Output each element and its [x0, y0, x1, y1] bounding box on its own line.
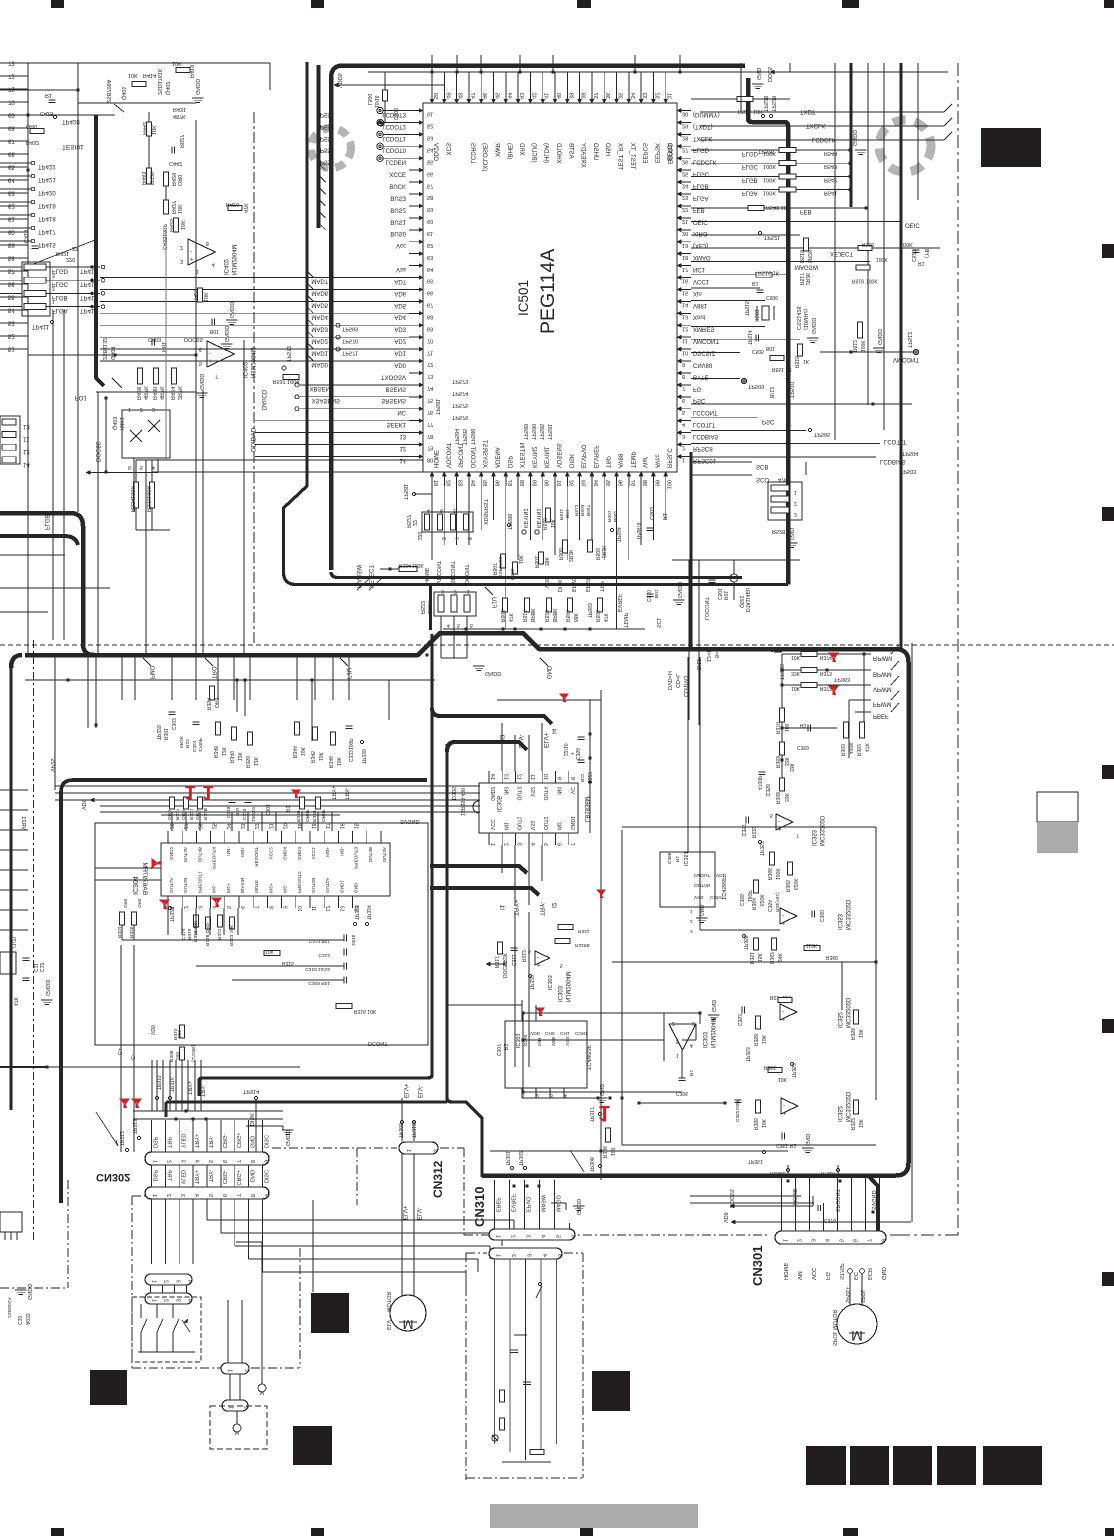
svg-text:3: 3 — [516, 843, 522, 846]
svg-text:94: 94 — [592, 480, 598, 486]
svg-text:XEJECT: XEJECT — [367, 565, 373, 588]
svg-text:4: 4 — [193, 1194, 199, 1197]
svg-text:4700P: 4700P — [756, 775, 762, 790]
svg-text:VS1: VS1 — [529, 820, 535, 830]
svg-text:C301: C301 — [264, 804, 270, 816]
svg-text:GND3: GND3 — [297, 847, 302, 860]
svg-text:(BHE): (BHE) — [506, 143, 512, 159]
svg-text:19: 19 — [682, 242, 688, 248]
svg-text:EC: EC — [852, 1272, 858, 1280]
svg-text:R306: R306 — [601, 1146, 607, 1158]
svg-text:C309 R01: C309 R01 — [308, 980, 330, 986]
svg-text:(YB): (YB) — [923, 247, 929, 258]
svg-text:43: 43 — [518, 93, 524, 99]
svg-text:TRY-: TRY- — [207, 1170, 213, 1182]
svg-text:GND: GND — [788, 528, 794, 540]
svg-text:TP308: TP308 — [588, 1157, 594, 1172]
svg-text:1: 1 — [495, 1235, 501, 1238]
svg-text:VCC1: VCC1 — [693, 278, 710, 284]
svg-text:XDSPRST: XDSPRST — [482, 498, 488, 525]
svg-text:M: M — [403, 1317, 414, 1332]
svg-text:53: 53 — [427, 135, 433, 141]
svg-text:47K: 47K — [778, 476, 788, 482]
svg-text:IC352: IC352 — [836, 1011, 842, 1028]
svg-text:TP329: TP329 — [155, 725, 161, 740]
svg-text:+: + — [783, 1109, 787, 1115]
svg-text:R512: R512 — [573, 504, 579, 516]
svg-text:12K: 12K — [236, 751, 242, 761]
svg-text:70: 70 — [8, 99, 15, 105]
svg-text:Q402: Q402 — [164, 82, 170, 95]
svg-text:C358: C358 — [764, 784, 770, 796]
svg-text:R304: R304 — [399, 562, 411, 568]
svg-text:9: 9 — [263, 1160, 269, 1163]
svg-text:13: 13 — [23, 423, 30, 429]
svg-text:GND4: GND4 — [283, 847, 288, 860]
svg-text:VCC2: VCC2 — [268, 847, 273, 860]
svg-text:R1: R1 — [661, 513, 667, 520]
svg-text:13: 13 — [502, 774, 508, 780]
svg-text:TP589: TP589 — [522, 424, 528, 440]
svg-text:17: 17 — [324, 823, 330, 829]
svg-text:VPWM: VPWM — [873, 686, 892, 692]
svg-text:6: 6 — [199, 346, 202, 352]
svg-text:IN3-: IN3- — [339, 847, 344, 856]
svg-text:47K: 47K — [863, 742, 869, 752]
svg-text:RFSLC: RFSLC — [666, 448, 672, 468]
svg-text:GND: GND — [249, 1136, 255, 1148]
svg-text:65: 65 — [8, 164, 15, 170]
svg-text:(10MHz): (10MHz) — [802, 309, 808, 330]
svg-text:37: 37 — [592, 93, 598, 99]
svg-text:R345: R345 — [309, 751, 315, 763]
svg-text:57: 57 — [427, 182, 433, 188]
svg-text:TP416: TP416 — [80, 268, 98, 274]
svg-text:R318 OR0: R318 OR0 — [204, 923, 210, 946]
svg-text:2: 2 — [52, 285, 55, 291]
svg-text:IC501: IC501 — [516, 280, 531, 316]
svg-text:IC351: IC351 — [682, 851, 688, 866]
svg-text:100K: 100K — [866, 278, 878, 284]
svg-text:15K: 15K — [756, 952, 762, 962]
svg-text:6: 6 — [528, 948, 531, 954]
svg-text:ADENA: ADENA — [494, 447, 500, 468]
svg-text:2: 2 — [510, 1235, 516, 1238]
svg-text:R540 10K: R540 10K — [766, 204, 791, 210]
svg-text:TP586: TP586 — [469, 429, 475, 445]
svg-text:1: 1 — [598, 1101, 610, 1126]
svg-text:LCDOT1: LCDOT1 — [382, 135, 406, 141]
svg-text:MAD6: MAD6 — [311, 290, 328, 296]
svg-text:R551: R551 — [772, 366, 784, 372]
svg-text:2: 2 — [244, 1369, 250, 1372]
svg-text:R315: R315 — [282, 960, 294, 966]
svg-text:R503: R503 — [579, 504, 585, 516]
svg-text:I3: I3 — [498, 734, 505, 740]
svg-text:GND2: GND2 — [489, 787, 495, 801]
svg-text:12: 12 — [23, 448, 30, 454]
svg-text:56: 56 — [427, 170, 433, 176]
svg-text:52: 52 — [427, 123, 433, 129]
svg-text:NC1: NC1 — [693, 266, 706, 272]
svg-text:100K: 100K — [412, 562, 424, 568]
svg-text:TP552: TP552 — [316, 123, 334, 129]
svg-text:AD7: AD7 — [394, 278, 406, 284]
svg-text:4: 4 — [427, 507, 430, 513]
svg-text:BUCK: BUCK — [389, 182, 406, 188]
svg-text:MAD1: MAD1 — [311, 349, 328, 355]
svg-text:R22: R22 — [184, 739, 190, 748]
svg-text:7: 7 — [682, 385, 685, 391]
svg-text:IC353: IC353 — [836, 913, 842, 930]
svg-text:1: 1 — [52, 298, 55, 304]
svg-text:620K: 620K — [792, 878, 798, 890]
svg-text:R521: R521 — [738, 108, 751, 114]
svg-text:I1: I1 — [498, 904, 505, 910]
svg-text:DISC: DISC — [263, 1170, 269, 1183]
svg-text:4: 4 — [682, 421, 685, 427]
svg-text:68: 68 — [427, 314, 433, 320]
svg-text:10K: 10K — [176, 204, 182, 214]
svg-text:3: 3 — [175, 1280, 181, 1283]
svg-text:C419: C419 — [22, 230, 28, 243]
svg-text:39: 39 — [567, 93, 573, 99]
svg-text:1: 1 — [184, 781, 196, 804]
svg-text:C311: C311 — [510, 954, 516, 966]
svg-text:B01: B01 — [564, 509, 570, 518]
svg-text:4: 4 — [447, 622, 450, 628]
svg-text:IC303: IC303 — [556, 985, 562, 1002]
svg-text:33: 33 — [641, 93, 647, 99]
svg-text:CRG+: CRG+ — [235, 1170, 241, 1185]
svg-text:CSS1428: CSS1428 — [795, 306, 801, 330]
svg-text:72: 72 — [8, 73, 15, 79]
svg-text:R368: R368 — [774, 792, 780, 804]
svg-text:96: 96 — [617, 480, 623, 486]
svg-text:BUS1: BUS1 — [390, 218, 406, 224]
svg-text:R369: R369 — [774, 756, 780, 768]
svg-text:R443: R443 — [140, 172, 146, 185]
svg-text:TC4W53F: TC4W53F — [585, 1044, 591, 1070]
svg-text:R1: R1 — [45, 92, 52, 98]
svg-text:51: 51 — [427, 111, 433, 117]
svg-text:Q401: Q401 — [120, 87, 126, 100]
svg-text:9: 9 — [263, 1194, 269, 1197]
svg-text:10K: 10K — [753, 108, 763, 114]
svg-text:IC353: IC353 — [810, 829, 816, 846]
svg-text:FLGC: FLGC — [742, 163, 759, 169]
svg-text:68: 68 — [8, 125, 15, 131]
svg-text:MC33202D: MC33202D — [844, 899, 850, 930]
svg-text:10K: 10K — [791, 654, 801, 660]
svg-text:R365: R365 — [784, 880, 790, 892]
svg-text:54: 54 — [8, 307, 15, 313]
svg-text:31: 31 — [666, 93, 672, 99]
svg-text:22: 22 — [786, 366, 792, 372]
svg-text:R430: R430 — [151, 387, 157, 400]
svg-text:R510: R510 — [541, 518, 547, 530]
svg-text:1: 1 — [151, 1299, 157, 1302]
svg-text:10K: 10K — [791, 685, 801, 691]
svg-text:45: 45 — [494, 93, 500, 99]
svg-text:VDD: VDD — [530, 1030, 541, 1036]
svg-text:13: 13 — [399, 433, 406, 439]
svg-text:ECR: ECR — [866, 1268, 872, 1280]
svg-text:TP330: TP330 — [360, 749, 366, 764]
svg-text:8: 8 — [569, 777, 575, 780]
svg-text:TEMP: TEMP — [622, 612, 628, 628]
svg-text:5R2K: 5R2K — [148, 171, 154, 185]
svg-text:TP572: TP572 — [285, 346, 291, 362]
svg-text:14: 14 — [23, 461, 30, 467]
svg-text:38: 38 — [580, 93, 586, 99]
svg-text:PREOUT1: PREOUT1 — [197, 871, 202, 893]
svg-text:LB1836M: LB1836M — [583, 796, 589, 822]
svg-text:LCDEN: LCDEN — [386, 159, 406, 165]
svg-text:R1: R1 — [674, 856, 680, 862]
svg-text:100K: 100K — [774, 868, 780, 880]
svg-text:CN312: CN312 — [431, 1160, 445, 1198]
svg-text:2SB709A: 2SB709A — [105, 79, 111, 103]
svg-text:MAGSW: MAGSW — [355, 564, 361, 588]
svg-text:10K: 10K — [760, 1034, 766, 1044]
svg-text:R518: R518 — [852, 278, 864, 284]
svg-text:FLGB: FLGB — [43, 514, 49, 530]
svg-text:EEPCS: EEPCS — [641, 143, 647, 163]
svg-text:TP5879: TP5879 — [635, 522, 641, 540]
svg-text:TP585: TP585 — [461, 429, 467, 445]
svg-text:R501: R501 — [533, 556, 539, 568]
svg-text:52: 52 — [8, 333, 15, 339]
svg-text:25: 25 — [211, 823, 217, 829]
svg-text:R515: R515 — [793, 356, 799, 368]
svg-text:MAGSW: MAGSW — [795, 264, 819, 270]
svg-text:C354: C354 — [766, 900, 772, 912]
svg-text:4: 4 — [187, 1299, 193, 1302]
svg-text:8: 8 — [249, 1194, 255, 1197]
svg-text:60: 60 — [427, 218, 433, 224]
svg-text:49: 49 — [444, 93, 450, 99]
svg-text:1: 1 — [782, 1239, 788, 1242]
svg-text:3: 3 — [690, 928, 693, 934]
svg-text:10K: 10K — [317, 751, 323, 761]
svg-text:R324: R324 — [116, 926, 122, 938]
svg-text:HOME: HOME — [770, 1170, 787, 1176]
svg-text:76: 76 — [427, 409, 433, 415]
svg-text:2: 2 — [165, 1194, 171, 1197]
svg-text:AD2: AD2 — [394, 338, 406, 344]
svg-text:TP569: TP569 — [342, 325, 358, 331]
svg-text:14: 14 — [489, 774, 495, 780]
svg-text:GNDD: GNDD — [851, 130, 857, 146]
svg-text:TRY-: TRY- — [343, 788, 349, 800]
svg-text:CRG-: CRG- — [221, 1134, 227, 1148]
svg-text:29: 29 — [682, 123, 688, 129]
svg-text:7: 7 — [866, 1239, 872, 1242]
svg-text:TP301: TP301 — [504, 1151, 510, 1166]
svg-text:25: 25 — [682, 170, 688, 176]
svg-text:R360: R360 — [826, 954, 838, 960]
svg-text:TP581: TP581 — [402, 484, 408, 500]
svg-text:GND: GND — [804, 1134, 810, 1146]
svg-text:SRSENS: SRSENS — [381, 397, 406, 403]
svg-text:R507: R507 — [491, 563, 497, 575]
svg-text:TP503: TP503 — [900, 468, 916, 474]
svg-text:LCDCLK: LCDCLK — [693, 159, 717, 165]
svg-text:4: 4 — [152, 464, 155, 470]
svg-text:100: 100 — [666, 480, 672, 489]
svg-text:32: 32 — [653, 93, 659, 99]
svg-text:10: 10 — [296, 906, 302, 912]
svg-text:6: 6 — [221, 1160, 227, 1163]
svg-text:1: 1 — [690, 908, 693, 914]
svg-text:73: 73 — [427, 373, 433, 379]
svg-text:TXCLK: TXCLK — [806, 122, 825, 128]
svg-text:IC304: IC304 — [131, 876, 138, 895]
svg-text:R504: R504 — [564, 610, 570, 622]
svg-text:R308: R308 — [168, 1050, 174, 1062]
svg-text:MASW: MASW — [540, 1194, 546, 1212]
svg-text:85: 85 — [481, 480, 487, 486]
svg-text:ELV+: ELV+ — [542, 732, 549, 748]
svg-text:9: 9 — [282, 906, 288, 909]
svg-text:100/10: 100/10 — [250, 807, 256, 822]
svg-text:2: 2 — [182, 906, 188, 909]
svg-text:59: 59 — [427, 206, 433, 212]
svg-text:R428: R428 — [135, 387, 141, 400]
svg-text:TP313: TP313 — [131, 1119, 137, 1134]
svg-text:BSENS: BSENS — [386, 385, 406, 391]
svg-text:100K: 100K — [876, 256, 888, 262]
svg-text:TP422: TP422 — [38, 163, 56, 169]
svg-text:48?K: 48?K — [173, 113, 186, 119]
svg-text:TP510: TP510 — [788, 382, 794, 398]
svg-text:GND: GND — [880, 1267, 886, 1280]
svg-text:R340: R340 — [311, 810, 317, 822]
svg-text:SPCONT: SPCONT — [449, 560, 455, 584]
svg-text:XSASENS: XSASENS — [312, 397, 340, 403]
svg-text:LCDBIAS: LCDBIAS — [693, 433, 719, 439]
svg-text:SEEK1: SEEK1 — [387, 421, 407, 427]
svg-text:64: 64 — [8, 177, 15, 183]
svg-text:1: 1 — [467, 588, 470, 594]
svg-text:C355: C355 — [738, 894, 744, 906]
svg-text:AD5: AD5 — [394, 302, 406, 308]
svg-text:GNDD: GNDD — [26, 1284, 32, 1300]
svg-text:C360: C360 — [818, 910, 824, 922]
svg-text:TP310: TP310 — [410, 1123, 416, 1138]
svg-text:SVGND: SVGND — [400, 818, 420, 824]
svg-text:100K: 100K — [763, 190, 776, 196]
svg-text:C508: C508 — [392, 108, 398, 120]
svg-text:GNDD: GNDD — [676, 582, 682, 598]
svg-text:24: 24 — [225, 823, 231, 829]
svg-text:R512: R512 — [851, 340, 857, 352]
svg-text:MAD4: MAD4 — [311, 314, 328, 320]
svg-text:97: 97 — [629, 480, 635, 486]
svg-text:TP421: TP421 — [38, 176, 56, 182]
svg-text:TP590: TP590 — [530, 424, 536, 440]
svg-text:NJM2904M: NJM2904M — [230, 244, 236, 275]
svg-text:R337: R337 — [174, 808, 180, 820]
svg-text:INH: INH — [536, 1037, 542, 1046]
svg-text:1K: 1K — [803, 358, 810, 364]
svg-text:6: 6 — [682, 397, 685, 403]
svg-text:2R7K: 2R7K — [176, 386, 182, 400]
svg-text:60: 60 — [8, 229, 15, 235]
svg-text:TP365: TP365 — [778, 664, 784, 680]
svg-text:ELV-: ELV- — [517, 734, 524, 748]
svg-text:DISC: DISC — [263, 1135, 269, 1148]
svg-text:TP413: TP413 — [80, 294, 98, 300]
svg-text:3: 3 — [179, 1160, 185, 1163]
svg-text:C307: C307 — [495, 1044, 501, 1056]
svg-text:MAD5: MAD5 — [311, 302, 328, 308]
svg-text:IN4+: IN4+ — [240, 847, 245, 857]
svg-text:IN2: IN2 — [556, 822, 562, 830]
svg-text:VD9: VD9 — [149, 1025, 155, 1035]
svg-text:64: 64 — [427, 266, 433, 272]
svg-text:18: 18 — [310, 823, 316, 829]
svg-text:VDCONT: VDCONT — [444, 442, 450, 468]
svg-text:TRY-: TRY- — [199, 1085, 205, 1097]
svg-text:58: 58 — [427, 194, 433, 200]
svg-text:R364: R364 — [750, 898, 756, 910]
svg-text:C+: C+ — [116, 1048, 122, 1055]
svg-text:Q501: Q501 — [738, 596, 744, 608]
svg-text:50: 50 — [432, 93, 438, 99]
svg-text:3: 3 — [692, 1020, 695, 1026]
svg-text:7: 7 — [235, 1194, 241, 1197]
svg-text:5R2K: 5R2K — [178, 735, 184, 748]
svg-text:10K: 10K — [335, 756, 341, 766]
svg-text:GND: GND — [755, 68, 761, 80]
svg-text:R366: R366 — [766, 868, 772, 880]
svg-text:VR21: VR21 — [20, 816, 26, 830]
svg-text:5: 5 — [457, 622, 460, 628]
svg-text:2: 2 — [796, 1239, 802, 1242]
svg-text:CRG+: CRG+ — [235, 1133, 241, 1148]
svg-text:MAD3: MAD3 — [311, 325, 328, 331]
svg-text:2: 2 — [454, 588, 457, 594]
svg-text:10: 10 — [542, 774, 548, 780]
svg-text:LOCONT: LOCONT — [703, 596, 709, 620]
svg-text:VCC1: VCC1 — [311, 847, 316, 860]
svg-text:OR0: OR0 — [26, 123, 37, 129]
svg-text:TP324: TP324 — [365, 905, 371, 920]
svg-text:TP317: TP317 — [588, 1107, 594, 1122]
svg-text:100K: 100K — [763, 176, 776, 182]
svg-text:220: 220 — [416, 531, 422, 540]
svg-text:220: 220 — [176, 1030, 182, 1038]
svg-text:12: 12 — [682, 325, 688, 331]
svg-text:OUT2B: OUT2B — [311, 878, 316, 893]
svg-text:69: 69 — [8, 112, 15, 118]
svg-text:MC33202D: MC33202D — [818, 815, 824, 846]
svg-text:PREOUT2: PREOUT2 — [297, 871, 302, 893]
svg-text:5: 5 — [140, 464, 143, 470]
svg-text:24: 24 — [682, 182, 688, 188]
svg-text:TP526: TP526 — [758, 148, 774, 154]
svg-text:78: 78 — [427, 433, 433, 439]
svg-text:SPOL MOTOR: SPOL MOTOR — [831, 1310, 837, 1346]
svg-text:23: 23 — [239, 823, 245, 829]
svg-text:10K: 10K — [549, 518, 555, 528]
svg-text:IC352: IC352 — [836, 1105, 842, 1122]
svg-text:PSC: PSC — [762, 418, 775, 424]
svg-text:DOC5S: DOC5S — [94, 441, 100, 462]
svg-text:TP594: TP594 — [615, 527, 621, 542]
